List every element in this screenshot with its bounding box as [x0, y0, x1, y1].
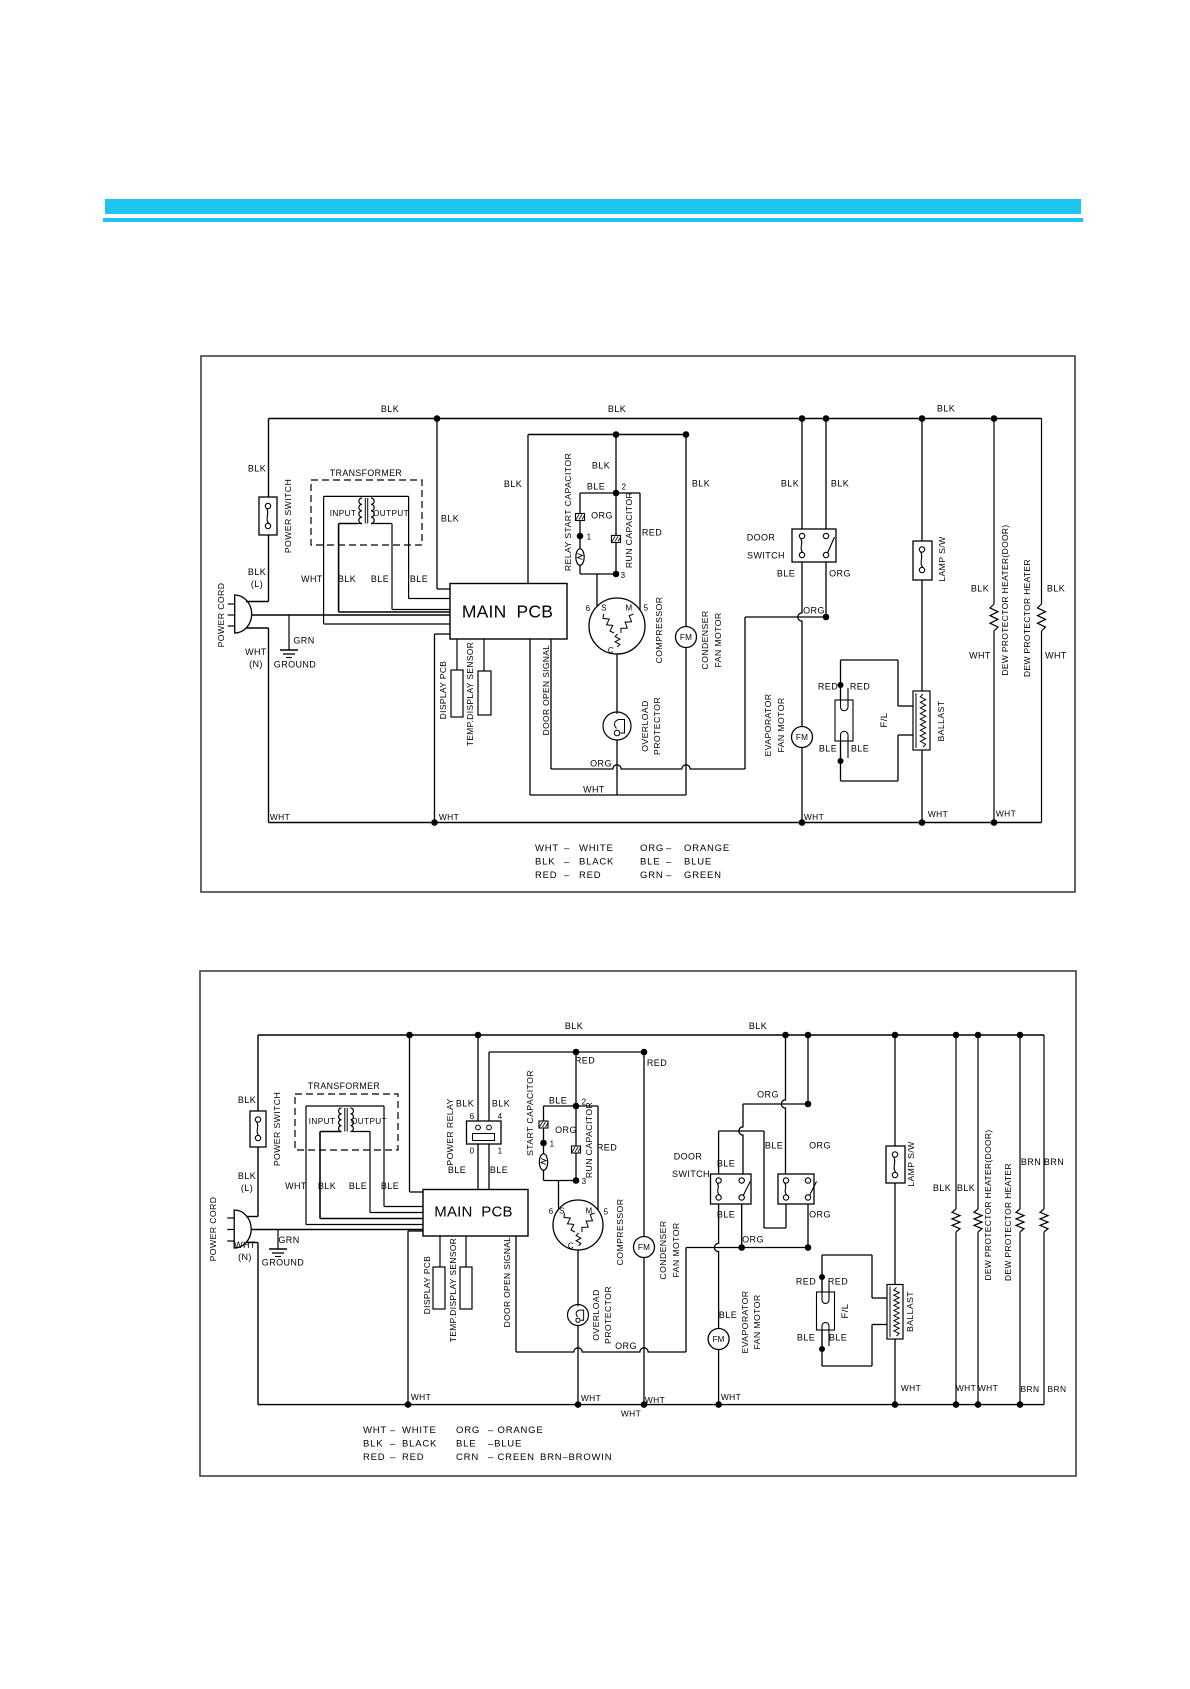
svg-text:DEW PROTECTOR HEATER(DOOR): DEW PROTECTOR HEATER(DOOR) [983, 1129, 993, 1280]
svg-text:C: C [608, 646, 614, 655]
svg-text:WHT: WHT [645, 1395, 665, 1405]
svg-text:RED: RED [579, 870, 601, 881]
svg-text:BLK: BLK [933, 1183, 951, 1193]
svg-text:BLE: BLE [851, 744, 869, 754]
svg-text:COMPRESSOR: COMPRESSOR [615, 1199, 625, 1266]
svg-text:BLK: BLK [381, 404, 399, 414]
svg-text:(L): (L) [251, 579, 263, 589]
svg-text:SWITCH: SWITCH [672, 1169, 710, 1179]
svg-text:BRN: BRN [1048, 1384, 1067, 1394]
svg-text:BLE: BLE [456, 1439, 476, 1450]
svg-text:5: 5 [644, 604, 649, 613]
svg-text:RED: RED [818, 682, 838, 692]
svg-text:POWER CORD: POWER CORD [216, 583, 226, 648]
svg-text:2: 2 [622, 483, 627, 492]
svg-text:M: M [625, 604, 632, 613]
svg-text:ORG: ORG [742, 1235, 764, 1245]
svg-text:BLK: BLK [238, 1171, 256, 1181]
svg-text:BLK: BLK [692, 479, 710, 489]
svg-text:WHT: WHT [270, 812, 290, 822]
svg-text:MAIN PCB: MAIN PCB [462, 602, 553, 622]
svg-text:S: S [601, 604, 607, 613]
svg-text:POWER RELAY: POWER RELAY [445, 1098, 455, 1165]
svg-text:BRN–BROWIN: BRN–BROWIN [540, 1452, 612, 1463]
svg-text:GREEN: GREEN [684, 870, 722, 881]
svg-text:WHT: WHT [1045, 651, 1067, 661]
svg-text:FM: FM [680, 633, 692, 642]
svg-text:OVERLOAD: OVERLOAD [591, 1289, 601, 1340]
svg-text:CONDENSER: CONDENSER [700, 610, 710, 669]
svg-text:BLK: BLK [492, 1099, 510, 1109]
svg-text:BLE: BLE [797, 1333, 815, 1343]
svg-text:–: – [390, 1452, 396, 1463]
svg-text:WHT: WHT [363, 1425, 387, 1436]
svg-text:EVAPORATOR: EVAPORATOR [740, 1291, 750, 1354]
svg-text:BLK: BLK [937, 404, 955, 414]
svg-text:6: 6 [549, 1207, 554, 1216]
svg-text:BLE: BLE [819, 744, 837, 754]
svg-text:WHT: WHT [285, 1181, 307, 1191]
svg-text:POWER SWITCH: POWER SWITCH [272, 1092, 282, 1166]
svg-text:BLE: BLE [381, 1181, 399, 1191]
svg-text:BLE: BLE [549, 1096, 567, 1106]
svg-text:(N): (N) [249, 659, 263, 669]
svg-text:FAN MOTOR: FAN MOTOR [671, 1222, 681, 1277]
svg-text:BLK: BLK [238, 1095, 256, 1105]
svg-text:BLK: BLK [565, 1021, 583, 1031]
svg-text:ORG: ORG [591, 511, 613, 521]
svg-text:–: – [390, 1425, 396, 1436]
svg-text:0: 0 [470, 1147, 475, 1156]
svg-text:FM: FM [796, 733, 808, 742]
svg-text:BLACK: BLACK [579, 857, 614, 868]
svg-text:FAN MOTOR: FAN MOTOR [776, 697, 786, 752]
svg-text:GROUND: GROUND [262, 1258, 304, 1268]
svg-text:1: 1 [550, 1140, 555, 1149]
svg-text:BLE: BLE [490, 1165, 508, 1175]
svg-text:–BLUE: –BLUE [488, 1439, 522, 1450]
svg-text:OUTPUT: OUTPUT [351, 1117, 387, 1126]
svg-text:RED: RED [535, 870, 557, 881]
svg-text:WHT: WHT [721, 1392, 741, 1402]
svg-text:ORG: ORG [555, 1125, 577, 1135]
svg-text:BLE: BLE [719, 1310, 737, 1320]
svg-text:OVERLOAD: OVERLOAD [640, 700, 650, 751]
svg-text:TRANSFORMER: TRANSFORMER [308, 1081, 380, 1091]
svg-text:WHT: WHT [969, 651, 991, 661]
svg-text:ORG: ORG [590, 759, 612, 769]
svg-text:WHT: WHT [439, 812, 459, 822]
svg-text:BRN: BRN [1021, 1384, 1040, 1394]
svg-text:WHITE: WHITE [402, 1425, 437, 1436]
svg-text:WHT: WHT [245, 647, 267, 657]
svg-text:WHT: WHT [996, 809, 1016, 819]
svg-text:3: 3 [582, 1177, 587, 1186]
svg-text:SWITCH: SWITCH [747, 551, 785, 561]
svg-text:BLK: BLK [971, 584, 989, 594]
svg-text:BLE: BLE [448, 1165, 466, 1175]
svg-text:RED: RED [597, 1143, 617, 1153]
svg-text:ORG: ORG [809, 1141, 831, 1151]
svg-text:START CAPACITOR: START CAPACITOR [525, 1070, 535, 1156]
svg-text:ORG: ORG [809, 1210, 831, 1220]
svg-text:DOOR OPEN SIGNAL: DOOR OPEN SIGNAL [502, 1237, 512, 1328]
svg-text:ORG: ORG [615, 1341, 637, 1351]
svg-text:RED: RED [796, 1277, 816, 1287]
svg-text:GROUND: GROUND [274, 660, 316, 670]
svg-text:RELAY START CAPACITOR: RELAY START CAPACITOR [563, 453, 573, 571]
svg-text:BLK: BLK [781, 479, 799, 489]
svg-text:BLK: BLK [441, 514, 459, 524]
svg-text:1: 1 [587, 533, 592, 542]
svg-text:WHT: WHT [583, 785, 605, 795]
svg-text:ORG: ORG [803, 606, 825, 616]
svg-text:WHT: WHT [978, 1383, 998, 1393]
svg-text:WHT: WHT [301, 574, 323, 584]
svg-text:MAIN PCB: MAIN PCB [434, 1204, 512, 1221]
svg-text:BLK: BLK [535, 857, 555, 868]
svg-text:BLE: BLE [371, 574, 389, 584]
svg-text:WHT: WHT [411, 1392, 431, 1402]
svg-text:WHT: WHT [901, 1383, 921, 1393]
svg-text:BLK: BLK [592, 461, 610, 471]
svg-text:ORG: ORG [456, 1425, 480, 1436]
svg-text:WHITE: WHITE [579, 843, 614, 854]
svg-text:FAN MOTOR: FAN MOTOR [752, 1294, 762, 1349]
svg-text:BLE: BLE [777, 569, 795, 579]
svg-text:DEW PROTECTOR HEATER(DOOR): DEW PROTECTOR HEATER(DOOR) [1000, 524, 1010, 675]
svg-text:RUN CAPACITOR: RUN CAPACITOR [624, 492, 634, 568]
svg-text:BRN: BRN [1044, 1157, 1064, 1167]
svg-text:BLK: BLK [957, 1183, 975, 1193]
svg-text:WHT: WHT [234, 1240, 256, 1250]
svg-text:BLE: BLE [829, 1333, 847, 1343]
svg-text:WHT: WHT [804, 812, 824, 822]
svg-text:COMPRESSOR: COMPRESSOR [654, 597, 664, 664]
svg-text:BLK: BLK [318, 1181, 336, 1191]
svg-text:BLACK: BLACK [402, 1439, 437, 1450]
svg-text:CONDENSER: CONDENSER [658, 1220, 668, 1279]
svg-text:BLK: BLK [831, 479, 849, 489]
svg-text:4: 4 [498, 1112, 503, 1121]
svg-text:ORG: ORG [640, 843, 664, 854]
svg-text:RED: RED [850, 682, 870, 692]
svg-text:BLE: BLE [587, 482, 605, 492]
svg-text:BLK: BLK [456, 1099, 474, 1109]
svg-text:DEW PROTECTOR HEATER: DEW PROTECTOR HEATER [1003, 1163, 1013, 1281]
svg-text:DISPLAY PCB: DISPLAY PCB [422, 1256, 432, 1315]
svg-text:DISPLAY PCB: DISPLAY PCB [438, 661, 448, 720]
svg-text:RED: RED [642, 528, 662, 538]
svg-text:DEW PROTECTOR HEATER: DEW PROTECTOR HEATER [1022, 559, 1032, 677]
svg-text:3: 3 [621, 571, 626, 580]
svg-text:PROTECTOR: PROTECTOR [652, 697, 662, 755]
svg-text:BLK: BLK [749, 1021, 767, 1031]
svg-text:BLK: BLK [363, 1439, 383, 1450]
svg-text:POWER CORD: POWER CORD [208, 1197, 218, 1262]
svg-text:ORG: ORG [757, 1090, 779, 1100]
svg-text:(L): (L) [241, 1183, 253, 1193]
svg-text:–: – [666, 857, 672, 868]
svg-text:DOOR OPEN SIGNAL: DOOR OPEN SIGNAL [541, 645, 551, 736]
svg-text:6: 6 [470, 1112, 475, 1121]
svg-text:LAMP S/W: LAMP S/W [906, 1141, 916, 1187]
svg-text:PROTECTOR: PROTECTOR [603, 1286, 613, 1344]
svg-text:BLK: BLK [608, 404, 626, 414]
svg-text:BLE: BLE [765, 1141, 783, 1151]
svg-text:ORANGE: ORANGE [684, 843, 730, 854]
svg-text:RED: RED [363, 1452, 385, 1463]
svg-text:BLK: BLK [1047, 584, 1065, 594]
svg-text:BLK: BLK [248, 567, 266, 577]
svg-text:INPUT: INPUT [330, 509, 357, 518]
svg-text:– ORANGE: – ORANGE [488, 1425, 544, 1436]
svg-text:GRN: GRN [640, 870, 664, 881]
svg-text:F/L: F/L [840, 1304, 851, 1319]
svg-text:–: – [564, 870, 570, 881]
svg-text:LAMP S/W: LAMP S/W [937, 536, 947, 582]
svg-text:–: – [564, 843, 570, 854]
svg-text:WHT: WHT [535, 843, 559, 854]
svg-text:GRN: GRN [293, 636, 314, 646]
svg-text:BLUE: BLUE [684, 857, 712, 868]
svg-text:– CREEN: – CREEN [488, 1452, 535, 1463]
svg-text:BLE: BLE [640, 857, 660, 868]
svg-text:S: S [559, 1207, 565, 1216]
svg-text:TEMP.DISPLAY SENSOR: TEMP.DISPLAY SENSOR [448, 1238, 458, 1342]
svg-text:RED: RED [575, 1056, 595, 1066]
svg-text:BLE: BLE [349, 1181, 367, 1191]
svg-text:6: 6 [586, 604, 591, 613]
svg-text:RED: RED [647, 1058, 667, 1068]
svg-text:5: 5 [604, 1208, 609, 1217]
svg-text:–: – [390, 1439, 396, 1450]
svg-text:(N): (N) [238, 1252, 252, 1262]
svg-text:GRN: GRN [278, 1235, 299, 1245]
svg-text:BLE: BLE [717, 1159, 735, 1169]
svg-text:WHT: WHT [581, 1393, 601, 1403]
svg-text:BLK: BLK [248, 464, 266, 474]
svg-text:RUN CAPACITOR: RUN CAPACITOR [584, 1102, 594, 1178]
svg-text:–: – [564, 857, 570, 868]
svg-text:RED: RED [402, 1452, 424, 1463]
svg-text:FM: FM [712, 1335, 724, 1344]
svg-text:TRANSFORMER: TRANSFORMER [330, 468, 402, 478]
svg-text:WHT: WHT [956, 1383, 976, 1393]
svg-text:DOOR: DOOR [747, 533, 776, 543]
svg-text:BLE: BLE [410, 574, 428, 584]
svg-text:TEMP.DISPLAY SENSOR: TEMP.DISPLAY SENSOR [465, 642, 475, 746]
svg-text:CRN: CRN [456, 1452, 479, 1463]
svg-text:INPUT: INPUT [309, 1117, 336, 1126]
svg-text:WHT: WHT [621, 1409, 641, 1419]
svg-text:POWER SWITCH: POWER SWITCH [283, 479, 293, 553]
svg-text:FM: FM [638, 1243, 650, 1252]
svg-text:BLK: BLK [338, 574, 356, 584]
svg-text:OUTPUT: OUTPUT [373, 509, 409, 518]
svg-text:DOOR: DOOR [674, 1152, 703, 1162]
svg-text:EVAPORATOR: EVAPORATOR [763, 694, 773, 757]
svg-text:–: – [666, 870, 672, 881]
svg-text:FAN MOTOR: FAN MOTOR [713, 612, 723, 667]
svg-text:–: – [666, 843, 672, 854]
svg-text:BLK: BLK [504, 479, 522, 489]
svg-text:BRN: BRN [1021, 1157, 1041, 1167]
svg-text:WHT: WHT [928, 809, 948, 819]
svg-text:1: 1 [498, 1147, 503, 1156]
svg-text:BALLAST: BALLAST [936, 700, 946, 741]
svg-text:C: C [568, 1242, 574, 1251]
svg-text:M: M [585, 1207, 592, 1216]
svg-text:ORG: ORG [829, 569, 851, 579]
svg-text:BLE: BLE [717, 1210, 735, 1220]
svg-text:BALLAST: BALLAST [905, 1291, 915, 1332]
svg-text:F/L: F/L [879, 713, 890, 728]
svg-text:RED: RED [828, 1277, 848, 1287]
